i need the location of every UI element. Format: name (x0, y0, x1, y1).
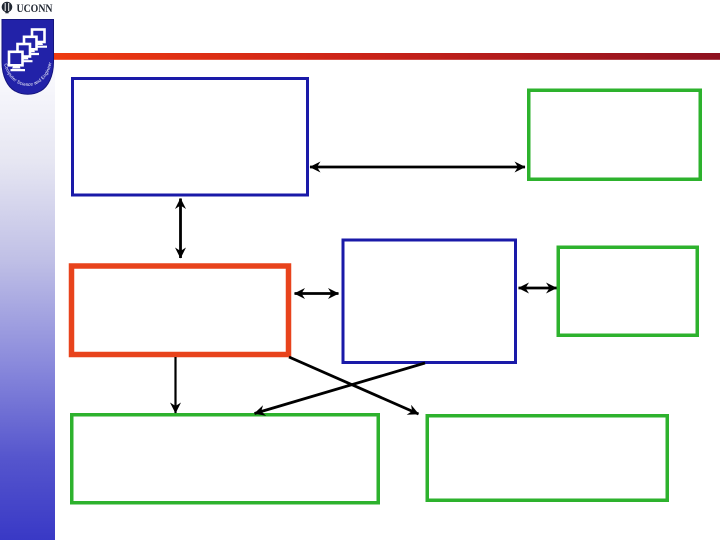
box B6: green bottom-left (72, 415, 379, 503)
curved caption (4, 62, 52, 86)
arrow A: double horizontal, B1 <-> B2 (310, 166, 525, 169)
box B1: blue top-left (73, 79, 308, 196)
box B7: green bottom-right (427, 416, 667, 501)
box B5: green mid-right (558, 247, 697, 335)
arrow G: diagonal single, B4 -> B6 (255, 363, 426, 414)
arrow B: double vertical, B1 <-> B3 (179, 199, 182, 259)
box B2: green top-right (529, 90, 701, 179)
arrow E: vertical single, B3 -> B6 (174, 357, 176, 413)
svg-text:UCONN: UCONN (17, 1, 53, 15)
CSE shield (0, 0, 54, 94)
left gradient sidebar (0, 0, 55, 540)
box B3: orange mid-left (72, 266, 289, 355)
box B4: blue middle (343, 240, 516, 363)
monitor 3 (24, 37, 37, 50)
arrow C: double horizontal, B3 <-> B4 (295, 292, 339, 295)
UCONN oak-leaf emblem (2, 2, 13, 14)
monitor 1 (bottom left) (9, 52, 23, 66)
red gradient rule (54, 53, 720, 60)
arrow D: double horizontal, B4 <-> B5 (519, 287, 557, 290)
monitor 4 (top right) (32, 30, 45, 43)
monitor 2 (18, 44, 31, 57)
arrow F: diagonal single, B3 -> B7 (289, 357, 419, 414)
